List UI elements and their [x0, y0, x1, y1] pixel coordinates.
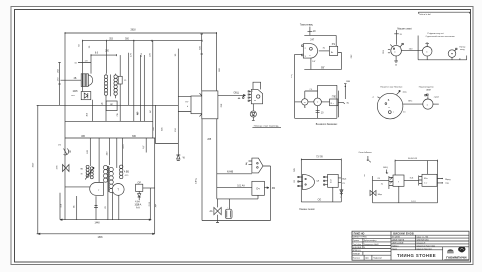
svg-text:14НЦ: 14НЦ [195, 178, 197, 184]
tube V6 [302, 44, 318, 58]
wire column d [150, 41, 153, 138]
svg-text:ПцЕцтц: ПцЕцтц [392, 245, 398, 247]
capacitor C1 [225, 199, 232, 219]
svg-text:101/: 101/ [134, 204, 139, 206]
wire drop [175, 49, 178, 155]
inductor L1 [104, 74, 107, 98]
caption socket [380, 86, 433, 91]
svg-text:1Г5: 1Г5 [58, 145, 61, 147]
start label [459, 46, 466, 51]
wire out OBL [218, 92, 246, 100]
wire column g [139, 55, 141, 121]
svg-text:Оч: Оч [256, 187, 260, 191]
svg-text:Пцинг: Пцинг [392, 248, 397, 250]
svg-text:ХАНВ: ХАНВ [227, 170, 234, 173]
connector K1 [178, 93, 202, 116]
transformer T1 [81, 74, 93, 87]
svg-text:Тампотнвмц: Тампотнвмц [300, 25, 314, 27]
logo text [444, 255, 468, 260]
diode D5 [250, 104, 256, 121]
svg-text:г: г [398, 181, 399, 184]
dimension 282 left [57, 63, 60, 106]
caption tube [252, 125, 281, 127]
wire bus 176 [217, 170, 252, 173]
svg-text:Пумвш: Пумвш [353, 240, 360, 242]
right rail sub [338, 54, 353, 117]
dimension 353 500 [82, 38, 202, 41]
bottom rail br [373, 186, 438, 203]
loop PO [294, 160, 341, 202]
dimension right sub [344, 81, 350, 99]
svg-text:ЧЕШТЦЕ ЦВЦ: ЧЕШТЦЕ ЦВЦ [417, 240, 430, 242]
left rail br [364, 167, 388, 203]
svg-text:2Б: 2Б [74, 78, 77, 80]
socket O1 [377, 93, 406, 119]
svg-text:1ВВ: 1ВВ [346, 81, 351, 83]
lower cluster top rail [65, 136, 155, 138]
box Q1 [252, 181, 265, 195]
valve V0 [57, 165, 69, 172]
svg-text:73-7/8: 73-7/8 [316, 157, 323, 159]
svg-text:АЦ: АЦ [245, 162, 248, 165]
svg-text:ОР: ОР [138, 182, 142, 184]
svg-text:кат: кат [71, 95, 74, 97]
wire caption drop [394, 30, 403, 45]
gauge P3 [448, 48, 457, 57]
svg-text:Цмце: Ц - ПШ: Цмце: Ц - ПШ [417, 237, 429, 239]
ground W [176, 155, 185, 161]
svg-text:вход: вход [460, 49, 465, 51]
wire G1 in [373, 178, 389, 185]
wire column f [137, 52, 144, 121]
wire stub 20 [61, 78, 82, 80]
wire right rail [217, 33, 222, 91]
inductor LB [120, 165, 130, 179]
svg-text:56-В-513: 56-В-513 [408, 158, 418, 160]
dimension TE TAI [301, 157, 341, 161]
wire loop2 bottom [295, 85, 337, 118]
wire link [308, 101, 314, 103]
svg-text:ТИИНG SТОНЕЕ: ТИИНG SТОНЕЕ [397, 253, 436, 258]
svg-text:Пашечнодлтчк: Пашечнодлтчк [419, 86, 434, 88]
dimension TEB [395, 158, 437, 162]
svg-text:Р-фраза way out: Р-фраза way out [428, 32, 444, 35]
caption upper sub [300, 25, 314, 27]
svg-text:АА: АА [210, 210, 214, 213]
wire column e [117, 53, 129, 121]
svg-text:+з: +з [372, 96, 374, 98]
svg-text:1448: 1448 [94, 223, 100, 225]
svg-text:Тейл и la del: Тейл и la del [419, 13, 431, 16]
wire loop2 in [295, 101, 302, 103]
bottom rail topright [418, 56, 467, 60]
wire G1 H1 [404, 178, 419, 181]
right table [391, 235, 469, 260]
meter Q2 [302, 99, 308, 107]
svg-text:Р.S: Р.S [332, 44, 336, 46]
wire bus 121 [65, 110, 153, 122]
svg-text:101 АА: 101 АА [237, 184, 245, 187]
svg-text:ПМВЦН: ПМВЦН [353, 254, 361, 256]
svg-text:2818: 2818 [130, 30, 136, 32]
svg-text:ОВЦ: ОВЦ [234, 92, 239, 94]
svg-text:а: а [252, 91, 253, 93]
svg-text:ЦЦЕ ВЦВ: ЦЦЕ ВЦВ [353, 247, 362, 249]
wire jog [153, 105, 178, 143]
wire bus 188 [217, 184, 252, 187]
svg-text:301Г: 301Г [33, 162, 35, 168]
note line top [418, 12, 470, 16]
variable inductor LA [80, 165, 94, 179]
svg-text:Всеивопо Замокамс: Всеивопо Замокамс [316, 124, 338, 126]
dimension 1806 [38, 233, 155, 239]
right table text [392, 233, 435, 251]
wire bus 198 [217, 195, 258, 199]
transformer T2 [103, 165, 113, 192]
svg-text:4ХХ: 4ХХ [331, 178, 333, 182]
right rail br [428, 161, 438, 203]
svg-text:ЗчБ: ЗчБ [410, 178, 414, 180]
svg-text:Питер: Питер [459, 46, 466, 48]
svg-text:ЦМП ЦЦ ВЦЕ: ЦМП ЦЦ ВЦЕ [392, 242, 404, 244]
svg-text:Пишется как Печенье: Пишется как Печенье [380, 86, 403, 88]
svg-text:1ОО: 1ОО [411, 201, 416, 203]
svg-text:1И: 1И [150, 110, 152, 113]
svg-text:ЗЕС: ЗЕС [408, 101, 413, 103]
bottom drops [60, 192, 119, 220]
svg-text:ДМ: ДМ [155, 204, 157, 207]
wire drop left sub [195, 119, 217, 221]
labels 101 AA [134, 201, 156, 209]
svg-text:4.ВБ: 4.ВБ [124, 172, 129, 174]
wire loop2 top [305, 85, 337, 98]
svg-text:ЧМВШУ ПУРВЧ: ЧМВШУ ПУРВЧ [353, 237, 368, 239]
svg-text:ЦПШЕ ПЦЕТВ: ЦПШЕ ПЦЕТВ [392, 240, 405, 242]
svg-text:Зв: Зв [381, 183, 383, 185]
svg-text:Шшецтв Пцин ЦЦ: Шшецтв Пцин ЦЦ [417, 248, 433, 250]
svg-text:ОО: ОО [318, 200, 322, 202]
svg-text:Л4: Л4 [378, 178, 380, 180]
svg-text:з gnd: з gnd [434, 97, 440, 99]
svg-text:БИЦ: БИЦ [383, 167, 388, 169]
box BB [118, 55, 127, 84]
labels H1 right [445, 179, 451, 184]
stub B2 [332, 187, 334, 202]
dimension 500 vertical [199, 34, 203, 91]
wire column b [89, 41, 107, 74]
svg-text:Машин скиart: Машин скиart [397, 27, 412, 30]
wire top loop [304, 35, 336, 46]
right rails lower [143, 138, 155, 234]
diode D1 [135, 191, 142, 206]
svg-text:4.64: 4.64 [135, 202, 140, 204]
svg-text:Сделанный сигнал низ вчкноп: Сделанный сигнал низ вчкноп [426, 35, 455, 38]
caption PO [299, 209, 315, 211]
caption loop2 [316, 124, 338, 126]
wire feed [308, 27, 317, 36]
inductor L2 [114, 74, 117, 99]
core [110, 75, 112, 97]
caption prinya [359, 151, 373, 163]
wire arrow ZM [264, 187, 275, 190]
svg-text:й: й [187, 105, 188, 108]
fuse S1 [58, 145, 72, 155]
caption mashin [397, 27, 412, 30]
svg-text:ВИСКНИ ЕНОВ: ВИСКНИ ЕНОВ [393, 233, 414, 236]
gauge P1 [383, 43, 403, 56]
svg-text:ЧВМ: ЧВМ [426, 90, 431, 92]
svg-text:ГЛЕ: ГЛЕ [332, 97, 337, 99]
wire bus 105 [38, 105, 179, 131]
box B2 [324, 174, 347, 187]
motor M1 [112, 184, 124, 196]
wire tube out [319, 48, 330, 51]
svg-text:Вт: Вт [331, 52, 333, 54]
svg-text:Шсцшвц Е: Шсцшвц Е [417, 242, 426, 244]
tube V3 [298, 174, 320, 189]
svg-text:ВПШ ЦЦ: ВПШ ЦЦ [353, 250, 361, 252]
gauge P2 [422, 42, 432, 56]
dimension 3010 [33, 105, 40, 234]
svg-text:1806: 1806 [97, 237, 103, 239]
svg-text:тч: тч [426, 42, 428, 44]
tube V5 unit [248, 82, 262, 104]
wire rail mid [86, 98, 106, 121]
svg-text:4.15: 4.15 [125, 175, 129, 177]
svg-text:Тцп Ыатв: Тцп Ыатв [353, 244, 361, 246]
rectifier box B1 [71, 91, 90, 100]
wire bottom loop1 [304, 58, 341, 70]
dimension 2818 top [65, 30, 217, 34]
wire columns lower [87, 138, 125, 182]
wire tube in [295, 53, 302, 55]
wire left rail [64, 33, 66, 220]
svg-text:ПАКЕ НО: ПАКЕ НО [354, 232, 365, 235]
bottom rail sub [202, 220, 271, 222]
meter Q3 [314, 98, 322, 106]
svg-text:Цмцдепарт НмШ: Цмцдепарт НмШ [364, 244, 379, 246]
junction box VP [106, 101, 117, 111]
left rail sub [291, 54, 294, 118]
svg-text:ЛТ ЦЕПВ: ЛТ ЦЕПВ [392, 237, 401, 239]
box BE [321, 97, 349, 106]
svg-text:Дрбрцтвшфцл: Дрбрцтвшфцл [364, 239, 377, 242]
logo glyph 2 [458, 246, 465, 252]
wire 200 [403, 101, 423, 105]
valve V4 [370, 190, 383, 195]
tube V1 [65, 183, 104, 196]
socket O2 [423, 94, 440, 109]
logo glyph 1 [447, 249, 454, 253]
main title text [397, 253, 436, 258]
svg-text:ЗМ: ЗМ [272, 188, 275, 190]
svg-text:Пцвлшч: Пцвлшч [353, 258, 360, 260]
svg-text:ГАВИМГИЧИ: ГАВИМГИЧИ [446, 255, 467, 259]
dimension 6.6 200 [91, 51, 117, 57]
diode D2 [340, 190, 343, 199]
pentagon P1 [245, 158, 263, 173]
wire 100 [401, 48, 422, 50]
relay box R1 [202, 91, 223, 119]
socket O1 pins [372, 90, 408, 98]
svg-text:А-А: А-А [136, 207, 140, 210]
box OP [136, 182, 155, 191]
left table [352, 235, 391, 260]
wire label drop [417, 36, 419, 60]
dimension 1448 [60, 219, 151, 225]
svg-text:1005: 1005 [72, 91, 78, 93]
svg-text:Океане пешап: Океане пешап [299, 209, 315, 211]
svg-text:Мцвд: Мцвд [445, 179, 451, 181]
left table text [353, 232, 382, 259]
svg-text:Окна follower: Окна follower [359, 151, 373, 154]
valve labels right [426, 32, 455, 38]
title block frame [352, 231, 469, 260]
svg-text:Пцфшвцй: Пцфшвцй [373, 257, 382, 260]
svg-text:Шишкетцв Пцинт ЦЦр: Шишкетцв Пцинт ЦЦр [417, 245, 435, 247]
box G1 [389, 161, 404, 189]
svg-text:И т: И т [331, 103, 334, 105]
wire stub 10 [74, 55, 91, 74]
box H1 [419, 174, 443, 186]
svg-text:лт: лт [304, 102, 306, 104]
valve V2 [210, 199, 222, 223]
wire column a [79, 41, 83, 100]
wire pentagon out [263, 166, 271, 221]
ground P1 [394, 56, 398, 66]
wire column c [130, 41, 133, 121]
box PS [329, 44, 341, 69]
